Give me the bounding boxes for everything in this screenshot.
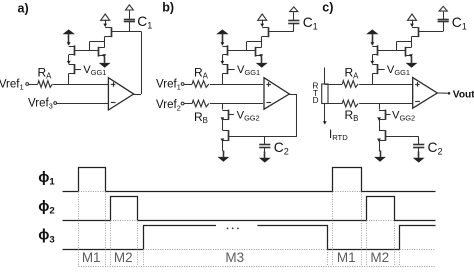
svg-text:D: D xyxy=(313,96,319,105)
svg-text:M1: M1 xyxy=(337,250,356,265)
svg-text:M2: M2 xyxy=(114,250,133,265)
svg-text:Vout: Vout xyxy=(453,89,474,100)
svg-text:b): b) xyxy=(162,1,174,15)
svg-text:M2: M2 xyxy=(370,250,389,265)
svg-text:M1: M1 xyxy=(82,250,101,265)
svg-text:a): a) xyxy=(18,1,29,15)
svg-text:c): c) xyxy=(322,1,333,15)
svg-text:M3: M3 xyxy=(225,250,244,265)
